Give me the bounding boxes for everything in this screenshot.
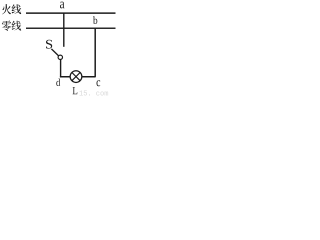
lamp cross stroke 2 — [72, 73, 80, 81]
lamp label L — [73, 87, 78, 94]
node d label — [56, 79, 60, 87]
node a label — [60, 2, 65, 9]
lamp L circle — [70, 71, 82, 83]
wire: vertical from node b down to node c — [94, 28, 96, 77]
node c label — [97, 80, 101, 86]
label 零线 (neutral wire) — [2, 20, 11, 30]
switch S label — [46, 40, 52, 49]
lamp cross stroke 1 — [72, 73, 80, 81]
svg-text:15. com: 15. com — [79, 91, 108, 98]
switch pivot circle — [58, 55, 62, 59]
wire: vertical from switch down to node d — [60, 59, 62, 77]
node b label — [93, 16, 97, 24]
switch blade (open) — [51, 49, 59, 56]
wire: bottom horizontal d to c — [60, 76, 96, 78]
wire: vertical from node a down to switch contact — [63, 13, 65, 47]
label 火线 (live wire) — [2, 4, 11, 14]
wire: neutral line (second horizontal) — [26, 27, 116, 29]
wire: live line (top horizontal) — [26, 12, 116, 14]
